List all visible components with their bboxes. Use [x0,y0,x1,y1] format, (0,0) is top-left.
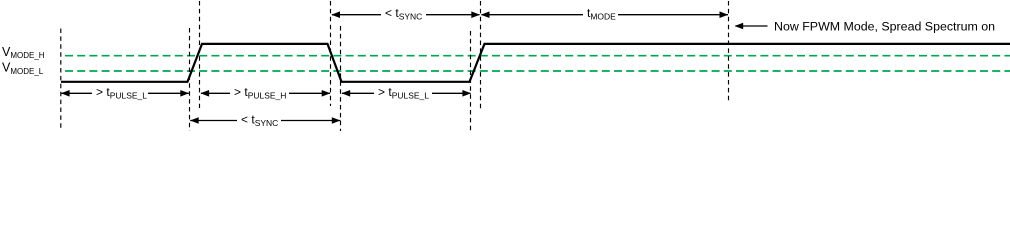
dimension arrow t_PULSE_H [200,85,330,101]
svg-text:VMODE_L: VMODE_L [2,61,44,76]
marker line L5 [340,26,342,131]
marker line L2 [189,28,191,131]
wire MODE waveform [61,44,1010,82]
dimension arrow t_PULSE_L second [342,85,472,101]
svg-text:tMODE: tMODE [587,6,616,22]
node V_MODE_H label [2,45,45,60]
marker line L3 [199,1,201,108]
V_MODE_L threshold dashed line [65,70,1010,72]
marker line L7 [480,1,482,110]
dimension arrow t_PULSE_L first [61,85,189,101]
svg-text:< tSYNC: < tSYNC [241,113,278,129]
V_MODE_H threshold dashed line [65,55,1010,57]
marker line L6 [470,31,472,132]
annotation arrow Now FPWM Mode [735,20,996,34]
dimension arrow t_SYNC bottom [190,113,341,129]
dimension arrow t_MODE [481,6,728,22]
svg-text:< tSYNC: < tSYNC [385,6,422,22]
marker line L4 [330,1,332,106]
svg-text:VMODE_H: VMODE_H [2,45,45,60]
marker line L1 [60,29,62,131]
node V_MODE_L label [2,61,44,76]
svg-text:> tPULSE_L: > tPULSE_L [96,85,147,101]
svg-text:Now FPWM Mode, Spread Spectrum: Now FPWM Mode, Spread Spectrum on [774,20,995,34]
svg-text:> tPULSE_L: > tPULSE_L [378,85,429,101]
marker line L8 [728,1,730,103]
svg-text:> tPULSE_H: > tPULSE_H [234,85,286,101]
dimension arrow t_SYNC top [331,6,480,22]
